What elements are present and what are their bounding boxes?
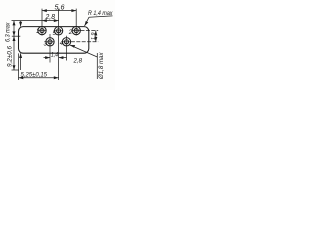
pin 2 circle (top right) [72,26,81,34]
extension line pin2 up [75,9,77,36]
right dim 1,9: vertical dimension line [95,31,97,42]
extension line pin1 up [41,9,43,36]
dimension line 5,6 [42,10,76,12]
right dim 1,9: extension top row [81,30,99,32]
svg-text:1,4: 1,4 [51,53,59,59]
left lower dim anchor tick y=70 [12,69,20,71]
dimension line 2,8 with long left tail [12,20,59,22]
extension line pin4 down [66,53,68,61]
pin 5 circle (top middle) [54,27,63,35]
right dim 1,9: extension bottom row [71,41,98,43]
leader R1,4max diagonal [85,17,90,26]
arrowheads [13,9,98,79]
svg-text:R 1,4 max: R 1,4 max [88,10,113,17]
body height arrow line top (x=20.6) [20,21,22,27]
svg-text:Ø1,8 max: Ø1,8 max [99,51,105,80]
svg-text:1,9: 1,9 [91,33,97,41]
dimension line 1,4 right segment [59,57,67,59]
background [0,0,115,90]
body height down arrow on top edge [19,22,22,27]
pin 4 circle (bottom right) [62,36,71,53]
svg-text:9,2±0,6: 9,2±0,6 [8,45,14,67]
body height arrow line bottom (x=20.6) [20,53,22,70]
R leader arrow [85,21,89,26]
svg-text:2: 2 [68,30,73,36]
pin 3 circle (bottom left) [46,34,55,63]
left edge extension down [18,53,20,80]
1,9 arrows [94,31,97,36]
package body outline [19,27,89,54]
dimension line 1,4 left segment [44,57,51,59]
left dim lower arrows [13,36,16,41]
svg-text:1: 1 [36,29,39,35]
leader O1,8max shelf [96,53,98,79]
left vertical dimension line upper (6,3max) [13,21,15,37]
1,4 outside arrows [45,56,50,59]
leader R1,4max shelf [89,16,113,17]
svg-text:5,25±0,15: 5,25±0,15 [21,72,48,79]
extension line pin5 up/down (long, to bottom dims) [58,9,60,80]
svg-text:5,6: 5,6 [55,5,65,12]
2,8 arrows [42,19,47,22]
left vertical dimension line lower (9,2±0,6) [13,36,15,70]
svg-text:6,3 max: 6,3 max [5,22,12,42]
left dim upper arrows [13,21,16,26]
body height up arrow on bottom edge [19,53,22,58]
bottom dimension line 5,25 [19,77,59,79]
texts [5,5,114,81]
svg-text:2,8: 2,8 [72,59,82,65]
O leader arrow [70,45,75,48]
axis tick at left y=36.2 [12,35,20,37]
5,6 arrows [42,9,47,12]
leader O1,8max diagonal [70,45,98,57]
pin 1 circle [38,26,47,34]
svg-text:2,8: 2,8 [45,14,56,21]
5,25 arrows [19,76,24,79]
